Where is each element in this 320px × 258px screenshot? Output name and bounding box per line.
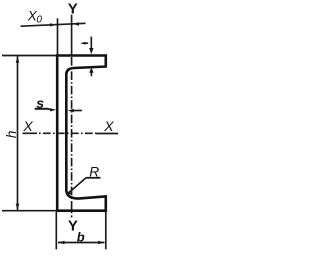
- svg-text:X: X: [22, 118, 33, 134]
- svg-text:0: 0: [36, 14, 42, 25]
- svg-text:s: s: [36, 95, 44, 111]
- svg-text:X: X: [103, 118, 114, 134]
- svg-text:R: R: [89, 165, 99, 180]
- svg-text:Y: Y: [68, 1, 78, 18]
- svg-text:h: h: [4, 131, 19, 139]
- svg-text:b: b: [77, 230, 85, 245]
